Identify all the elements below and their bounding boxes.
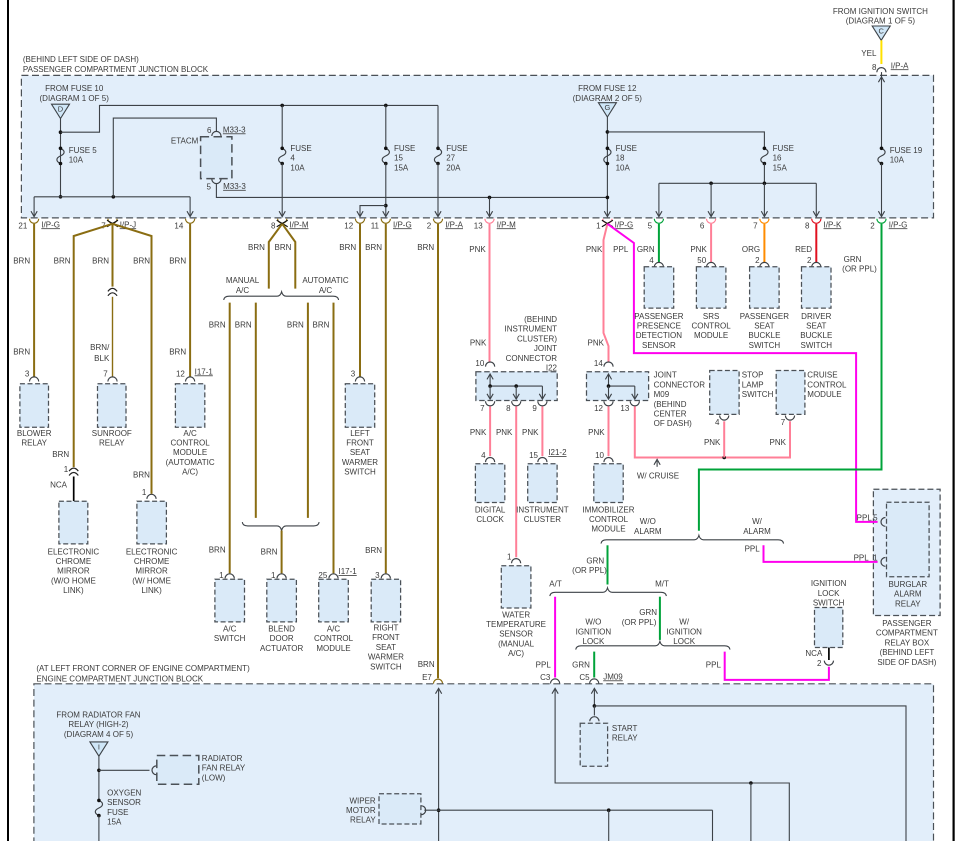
- svg-text:BRN: BRN: [418, 660, 435, 669]
- bus A horizontal: [34, 196, 190, 198]
- svg-text:MODULE: MODULE: [316, 644, 350, 653]
- svg-text:(OR PPL): (OR PPL): [572, 566, 607, 575]
- module ELECTRONIC CHROME MIRROR W HOME LINK box: [137, 501, 167, 544]
- wire GRN w/o alarm branch: [607, 545, 609, 584]
- svg-text:INSTRUMENT: INSTRUMENT: [516, 505, 569, 514]
- wire NCA black to mirror: [73, 477, 75, 502]
- svg-text:ORG: ORG: [742, 245, 760, 254]
- svg-text:BRN: BRN: [313, 321, 330, 330]
- svg-text:W/: W/: [679, 618, 690, 627]
- svg-text:MIRROR: MIRROR: [135, 567, 168, 576]
- junction dot fuse16 branch: [606, 130, 610, 134]
- junction dot C3 branch: [749, 781, 753, 785]
- svg-text:ALARM: ALARM: [894, 590, 922, 599]
- svg-text:I/P-K: I/P-K: [824, 220, 842, 229]
- I22 internal bus: [490, 385, 542, 387]
- svg-text:PASSENGER COMPARTMENT JUNCTION: PASSENGER COMPARTMENT JUNCTION BLOCK: [23, 65, 209, 74]
- stop lamp switch pin 4: [720, 416, 729, 421]
- svg-text:9: 9: [532, 404, 537, 413]
- junction dot pin13 tap: [488, 196, 492, 200]
- SRS pin 50: [707, 262, 716, 267]
- svg-text:PNK: PNK: [470, 338, 487, 347]
- wire C3 branch down: [750, 783, 752, 841]
- svg-text:INSTRUMENT: INSTRUMENT: [505, 325, 558, 334]
- wire radiator fan feed: [98, 756, 100, 800]
- svg-text:10: 10: [595, 451, 604, 460]
- junction dot start relay: [593, 704, 597, 708]
- svg-text:W/ CRUISE: W/ CRUISE: [637, 471, 679, 480]
- svg-text:A/C): A/C): [508, 649, 524, 658]
- wire PPL pin1 to burglar alarm relay pin5: [607, 224, 877, 522]
- wire branch to fuse 16: [607, 132, 764, 148]
- pin 1 I/P-G: [603, 219, 612, 224]
- svg-text:BRN: BRN: [339, 243, 356, 252]
- svg-text:PPL: PPL: [706, 660, 722, 669]
- svg-text:W/O: W/O: [585, 618, 601, 627]
- relay BLOWER RELAY box: [20, 384, 49, 428]
- svg-text:15A: 15A: [773, 163, 788, 172]
- svg-text:I21-2: I21-2: [548, 448, 567, 457]
- svg-text:BURGLAR: BURGLAR: [888, 580, 927, 589]
- M09 internal bus: [609, 385, 635, 387]
- svg-text:(W/O HOME: (W/O HOME: [51, 576, 96, 585]
- svg-text:15: 15: [394, 154, 403, 163]
- junction dot wiper: [437, 808, 441, 812]
- svg-text:2: 2: [427, 221, 432, 230]
- svg-text:C: C: [878, 27, 884, 36]
- svg-text:18: 18: [616, 154, 625, 163]
- svg-text:ELECTRONIC: ELECTRONIC: [126, 547, 178, 556]
- AC control module pin 12 I17-1: [186, 377, 195, 382]
- svg-text:I/P-G: I/P-G: [889, 220, 908, 229]
- start relay pin: [590, 717, 599, 722]
- engine compartment junction block: [34, 684, 934, 841]
- svg-text:8: 8: [271, 221, 276, 230]
- svg-text:12: 12: [176, 370, 185, 379]
- I22 pin 8: [512, 401, 521, 406]
- wire fuse15 to pin 11: [385, 164, 387, 217]
- module DIGITAL CLOCK box: [475, 464, 504, 503]
- pin 21 I/P-G: [30, 219, 39, 224]
- svg-text:PRESENCE: PRESENCE: [637, 322, 681, 331]
- wire bus A to pin 14: [189, 197, 191, 216]
- svg-text:A/C: A/C: [236, 286, 250, 295]
- svg-text:D: D: [58, 105, 64, 114]
- svg-text:CONTROL: CONTROL: [589, 515, 629, 524]
- module INSTRUMENT CLUSTER box: [528, 464, 557, 503]
- triangle connector D: [52, 104, 70, 118]
- brace blend door merge: [242, 522, 319, 530]
- wire BRN/BLK continues to sunroof relay: [112, 297, 114, 377]
- svg-text:BRN/: BRN/: [90, 343, 110, 352]
- wire to start relay: [593, 706, 595, 716]
- svg-text:IGNITION: IGNITION: [576, 627, 612, 636]
- pin E7 engine block: [433, 679, 442, 684]
- svg-text:GRN: GRN: [637, 245, 655, 254]
- M09 internal arrow up: [608, 375, 610, 386]
- svg-text:7: 7: [480, 404, 485, 413]
- wire branch from D-dot to top feeder bus: [61, 105, 439, 132]
- I22 pin 10: [486, 362, 495, 367]
- inline connector 1 NCA break: [69, 467, 79, 476]
- svg-text:CONNECTOR: CONNECTOR: [506, 354, 558, 363]
- svg-text:SEAT: SEAT: [754, 322, 774, 331]
- svg-text:ACTUATOR: ACTUATOR: [260, 644, 303, 653]
- svg-text:BRN: BRN: [209, 546, 226, 555]
- radiator fan relay pin: [152, 766, 156, 775]
- svg-text:BLK: BLK: [94, 354, 110, 363]
- svg-text:CRUISE: CRUISE: [807, 371, 837, 380]
- svg-text:25: 25: [318, 571, 327, 580]
- wire bus B to pin 13: [489, 197, 491, 216]
- svg-text:FAN RELAY: FAN RELAY: [202, 764, 246, 773]
- svg-text:(BEHIND: (BEHIND: [654, 400, 687, 409]
- svg-text:FROM FUSE 12: FROM FUSE 12: [578, 84, 637, 93]
- svg-text:7: 7: [781, 418, 786, 427]
- svg-text:FROM IGNITION SWITCH: FROM IGNITION SWITCH: [833, 7, 928, 16]
- svg-text:SEAT: SEAT: [376, 643, 396, 652]
- pin 7 I/P-J: [108, 219, 117, 224]
- svg-text:BRN: BRN: [13, 348, 30, 357]
- svg-text:LINK): LINK): [141, 586, 162, 595]
- left seat warmer pin 3: [355, 377, 364, 382]
- pin 2 I/P-A: [433, 219, 442, 224]
- fuse FUSE 27 20A: [437, 105, 439, 148]
- svg-text:CONTROL: CONTROL: [807, 380, 847, 389]
- svg-text:PASSENGER: PASSENGER: [740, 312, 789, 321]
- svg-text:FUSE 5: FUSE 5: [69, 146, 98, 155]
- wire fuse27 to pin 2: [437, 164, 439, 217]
- wire GRN w/o ignition lock to C5: [593, 652, 595, 678]
- pin 13 I/P-M: [485, 219, 494, 224]
- svg-text:LOCK: LOCK: [583, 637, 605, 646]
- svg-text:14: 14: [174, 221, 183, 230]
- svg-text:10A: 10A: [290, 163, 305, 172]
- svg-text:LOCK: LOCK: [673, 637, 695, 646]
- svg-text:SWITCH: SWITCH: [344, 468, 376, 477]
- svg-text:(BEHIND: (BEHIND: [524, 315, 557, 324]
- svg-text:3: 3: [375, 571, 380, 580]
- switch RIGHT FRONT SEAT WARMER SWITCH box: [371, 579, 400, 622]
- svg-text:PNK: PNK: [496, 428, 513, 437]
- svg-text:E7: E7: [422, 673, 432, 682]
- wire YEL ignition feed: [880, 40, 882, 64]
- wire from G to pin 1: [606, 117, 608, 216]
- svg-text:START: START: [612, 724, 638, 733]
- wire fuse19 to pin 2: [881, 164, 883, 217]
- svg-text:I/P-M: I/P-M: [497, 220, 516, 229]
- junction dot: [59, 130, 63, 134]
- svg-text:8: 8: [805, 221, 810, 230]
- svg-text:ENGINE COMPARTMENT JUNCTION BL: ENGINE COMPARTMENT JUNCTION BLOCK: [36, 674, 203, 683]
- svg-text:W/O: W/O: [640, 517, 656, 526]
- wire GRN M/T branch: [659, 597, 661, 640]
- svg-text:(DIAGRAM 2 OF 5): (DIAGRAM 2 OF 5): [573, 94, 643, 103]
- svg-text:(DIAGRAM 1 OF 5): (DIAGRAM 1 OF 5): [40, 94, 110, 103]
- svg-text:OF DASH): OF DASH): [654, 419, 693, 428]
- wire from D to bus A: [60, 119, 62, 197]
- wire BRN auto-2 to AC control module: [333, 303, 335, 574]
- svg-text:FUSE 19: FUSE 19: [890, 146, 923, 155]
- wire PPL A/T branch to C3: [554, 597, 556, 678]
- ignition lock switch stub: [828, 648, 830, 661]
- svg-text:SWITCH: SWITCH: [214, 634, 246, 643]
- junction dot fuse4 tap: [280, 104, 284, 108]
- svg-text:BRN: BRN: [275, 243, 292, 252]
- M09 internal arrows down: [608, 386, 610, 399]
- svg-text:FRONT: FRONT: [346, 439, 374, 448]
- wire C5 to right: [594, 706, 906, 841]
- junction dot: [97, 769, 101, 773]
- wire BRN pin12 to left seat warmer: [359, 224, 361, 377]
- pin 7 seat: [760, 219, 769, 224]
- svg-text:GRN: GRN: [572, 660, 590, 669]
- svg-text:(AT LEFT FRONT CORNER OF ENGIN: (AT LEFT FRONT CORNER OF ENGINE COMPARTM…: [36, 664, 250, 673]
- svg-text:SENSOR: SENSOR: [642, 341, 676, 350]
- svg-text:WARMER: WARMER: [368, 653, 404, 662]
- triangle connector I: [90, 742, 108, 756]
- svg-text:12: 12: [344, 221, 353, 230]
- relay box PASSENGER COMPARTMENT RELAY BOX outer: [873, 489, 940, 615]
- svg-text:IGNITION: IGNITION: [811, 579, 847, 588]
- svg-text:(MANUAL: (MANUAL: [498, 639, 535, 648]
- joint connector M09 box: [587, 372, 649, 401]
- wire GRN pin2 to alarm brace: [699, 224, 882, 531]
- svg-text:10A: 10A: [616, 163, 631, 172]
- svg-text:PNK: PNK: [770, 438, 787, 447]
- junction dot pin12 branch: [384, 204, 388, 208]
- svg-text:M33-3: M33-3: [223, 125, 246, 134]
- passenger presence pin 4: [654, 262, 663, 267]
- svg-text:4: 4: [715, 418, 720, 427]
- svg-text:1: 1: [219, 571, 224, 580]
- svg-text:8: 8: [872, 63, 877, 72]
- svg-text:14: 14: [594, 359, 603, 368]
- M09 pin 14: [604, 362, 613, 367]
- wire BRN/BLK pin7 center branch: [112, 224, 114, 287]
- svg-text:WIPER: WIPER: [349, 796, 375, 805]
- svg-text:BRN: BRN: [417, 243, 434, 252]
- sensor PASSENGER PRESENCE DETECTION SENSOR box: [644, 267, 674, 308]
- svg-text:SUNROOF: SUNROOF: [92, 429, 132, 438]
- svg-text:FRONT: FRONT: [372, 633, 400, 642]
- blend door actuator pin 1: [277, 574, 286, 579]
- svg-text:FUSE: FUSE: [290, 144, 311, 153]
- wire oxygen fuse down: [98, 816, 100, 841]
- svg-text:RADIATOR: RADIATOR: [202, 754, 243, 763]
- I22 internal arrows down: [489, 386, 491, 399]
- svg-text:YEL: YEL: [861, 49, 877, 58]
- svg-text:5: 5: [873, 514, 878, 523]
- pin 8 I/P-A top: [877, 68, 886, 73]
- svg-text:1: 1: [64, 465, 69, 474]
- wire wiper relay to bus: [424, 809, 712, 811]
- svg-text:4: 4: [481, 451, 486, 460]
- wire RED pin8 to driver buckle switch: [815, 224, 817, 262]
- svg-text:10A: 10A: [69, 156, 84, 165]
- sensor WATER TEMPERATURE SENSOR box: [501, 566, 531, 608]
- svg-text:3: 3: [25, 370, 30, 379]
- wire BRN pin8 right to brace: [282, 224, 295, 289]
- svg-text:ETACM: ETACM: [171, 137, 199, 146]
- wire PNK stop lamp switch: [723, 421, 725, 457]
- wire BRN pin7 left branch: [74, 224, 113, 468]
- fuse FUSE 18 10A: [604, 148, 611, 163]
- passenger compartment junction block: [21, 75, 933, 218]
- svg-text:GRN: GRN: [639, 608, 657, 617]
- svg-text:I/P-A: I/P-A: [891, 61, 909, 70]
- svg-text:(OR PPL): (OR PPL): [622, 618, 657, 627]
- svg-text:PPL: PPL: [613, 245, 629, 254]
- wire E7 internal: [438, 688, 440, 841]
- wire wiper corner down: [712, 810, 714, 841]
- svg-text:CONTROL: CONTROL: [171, 439, 211, 448]
- svg-text:6: 6: [207, 126, 212, 135]
- svg-text:BRN: BRN: [133, 257, 150, 266]
- right seat warmer pin 3: [381, 574, 390, 579]
- svg-text:6: 6: [700, 221, 705, 230]
- passenger buckle pin 2: [760, 262, 769, 267]
- digital clock pin 4: [486, 458, 495, 463]
- svg-text:I/P-G: I/P-G: [393, 220, 412, 229]
- svg-text:I/P-A: I/P-A: [445, 220, 463, 229]
- svg-text:AUTOMATIC: AUTOMATIC: [302, 276, 349, 285]
- svg-text:15A: 15A: [107, 818, 122, 827]
- svg-text:SEAT: SEAT: [806, 322, 826, 331]
- wire to pin 7: [763, 183, 765, 216]
- svg-text:GRN: GRN: [844, 255, 862, 264]
- svg-text:3: 3: [351, 370, 356, 379]
- svg-text:BRN: BRN: [13, 257, 30, 266]
- blower relay pin 3: [30, 377, 39, 382]
- svg-text:ALARM: ALARM: [743, 527, 771, 536]
- M09 pin 13: [630, 401, 639, 406]
- svg-text:NCA: NCA: [805, 649, 823, 658]
- svg-text:FROM RADIATOR FAN: FROM RADIATOR FAN: [56, 710, 140, 719]
- svg-text:FROM FUSE 10: FROM FUSE 10: [45, 84, 104, 93]
- svg-text:RIGHT: RIGHT: [373, 624, 398, 633]
- pin C3 engine block: [551, 679, 560, 684]
- svg-text:(LOW): (LOW): [202, 773, 226, 782]
- svg-text:BLOWER: BLOWER: [17, 429, 52, 438]
- svg-text:MODULE: MODULE: [807, 390, 841, 399]
- svg-text:DOOR: DOOR: [270, 634, 294, 643]
- module CRUISE CONTROL MODULE box: [776, 371, 805, 415]
- svg-text:WARMER: WARMER: [342, 458, 378, 467]
- module A/C CONTROL MODULE AUTOMATIC box: [175, 384, 204, 428]
- svg-text:SIDE OF DASH): SIDE OF DASH): [877, 658, 936, 667]
- burglar pin 1: [881, 558, 885, 567]
- svg-text:PNK: PNK: [588, 338, 605, 347]
- svg-text:NCA: NCA: [50, 481, 68, 490]
- svg-text:RELAY: RELAY: [612, 734, 638, 743]
- svg-text:CLUSTER: CLUSTER: [524, 515, 562, 524]
- switch DRIVER SEAT BUCKLE SWITCH box: [802, 267, 832, 308]
- wire PNK pin13 to I22 pin10: [489, 224, 491, 362]
- svg-text:BRN: BRN: [365, 243, 382, 252]
- wire BRN manual-1 to AC switch: [229, 303, 231, 574]
- svg-text:RELAY: RELAY: [350, 816, 376, 825]
- fuse FUSE 15 15A: [385, 105, 387, 148]
- svg-text:21: 21: [18, 221, 27, 230]
- wire GRN pin5 to passenger presence sensor: [658, 224, 660, 262]
- switch A/C SWITCH box: [215, 579, 245, 622]
- svg-text:RELAY: RELAY: [895, 599, 921, 608]
- wire C5 internal: [593, 688, 595, 706]
- svg-text:1: 1: [271, 571, 276, 580]
- svg-text:BRN: BRN: [287, 321, 304, 330]
- switch STOP LAMP SWITCH box: [710, 371, 739, 415]
- svg-text:15: 15: [529, 451, 538, 460]
- wire branch to pin 12: [360, 206, 386, 217]
- svg-text:1: 1: [873, 554, 878, 563]
- module ELECTRONIC CHROME MIRROR W/O HOME LINK box: [59, 501, 88, 544]
- junction dot: [709, 182, 713, 186]
- pin 11 I/P-G: [381, 219, 390, 224]
- pin C5 engine block: [590, 679, 599, 684]
- joint connector I22 box: [476, 372, 557, 401]
- svg-text:FUSE: FUSE: [446, 144, 467, 153]
- wire PPL w/ alarm branch to burglar pin1: [764, 545, 878, 562]
- svg-text:2: 2: [870, 221, 875, 230]
- brace alarm options: [601, 535, 784, 543]
- relay START RELAY box: [580, 723, 607, 766]
- AC control module pin 25 I17-1: [329, 574, 338, 579]
- wire PNK pin6 to SRS module: [710, 224, 712, 262]
- svg-text:C3: C3: [540, 673, 551, 682]
- sunroof relay pin 7: [108, 377, 117, 382]
- wire ETACM pin5 to bus B: [216, 184, 607, 197]
- svg-text:PNK: PNK: [586, 245, 603, 254]
- svg-text:SWITCH: SWITCH: [813, 599, 845, 608]
- fuse OXYGEN SENSOR FUSE 15A: [95, 800, 102, 815]
- relay BURGLAR ALARM RELAY box: [887, 502, 930, 577]
- svg-text:16: 16: [773, 154, 782, 163]
- svg-text:DETECTION: DETECTION: [636, 331, 682, 340]
- svg-text:LEFT: LEFT: [350, 429, 370, 438]
- svg-text:A/T: A/T: [549, 579, 562, 588]
- svg-text:BRN: BRN: [235, 321, 252, 330]
- svg-text:M09: M09: [654, 390, 670, 399]
- svg-text:PNK: PNK: [470, 428, 487, 437]
- svg-text:SENSOR: SENSOR: [107, 798, 141, 807]
- wire fuse16 to distribution bar: [763, 164, 765, 184]
- op-amp n/a ETACM module box: [201, 137, 232, 179]
- svg-text:OXYGEN: OXYGEN: [107, 788, 141, 797]
- triangle connector C: [872, 26, 890, 40]
- svg-text:STOP: STOP: [742, 371, 764, 380]
- wiper relay pin: [421, 806, 425, 815]
- junction dot: [763, 182, 767, 186]
- svg-text:I17-1: I17-1: [339, 567, 358, 576]
- svg-text:LOCK: LOCK: [818, 589, 840, 598]
- module SRS CONTROL MODULE box: [696, 267, 726, 308]
- svg-text:IMMOBILIZER: IMMOBILIZER: [582, 505, 634, 514]
- junction dot: [607, 808, 611, 812]
- wire PPL w/ ignition lock to ignition lock switch: [725, 652, 829, 680]
- wire pin8 to fuse 19: [881, 72, 883, 148]
- svg-text:PNK: PNK: [469, 245, 486, 254]
- svg-text:PNK: PNK: [588, 428, 605, 437]
- I22 pin 9: [538, 401, 547, 406]
- svg-text:ALARM: ALARM: [634, 527, 662, 536]
- actuator BLEND DOOR ACTUATOR box: [267, 579, 297, 622]
- wire PNK I22 pin8 to water temp sensor: [515, 406, 517, 557]
- svg-text:BRN: BRN: [365, 546, 382, 555]
- svg-text:GRN: GRN: [586, 556, 604, 565]
- junction dot ETACM feed: [112, 195, 116, 199]
- svg-text:20A: 20A: [446, 163, 461, 172]
